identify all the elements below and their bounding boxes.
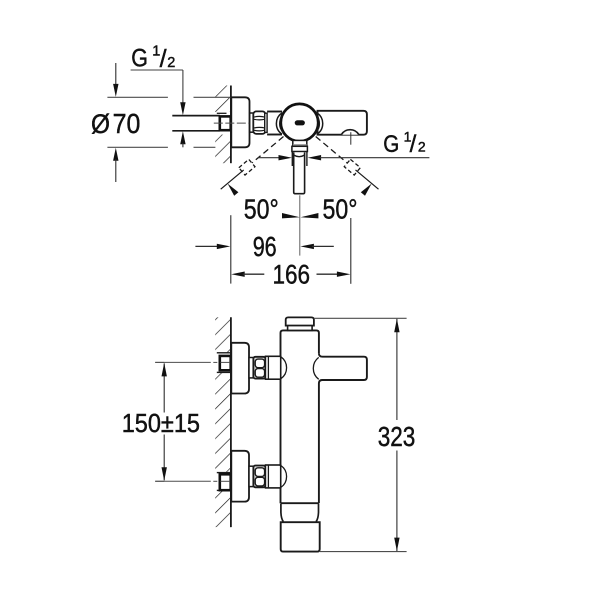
dimension 150±15	[122, 363, 200, 481]
body top cap	[286, 317, 314, 325]
neck grey band	[293, 144, 307, 146]
wall hole edges bottom inlet	[217, 473, 231, 491]
connection cylinder (top view)	[250, 113, 254, 132]
in-wall pipe fitting (top view, bold)	[220, 116, 231, 130]
svg-text:Ø: Ø	[91, 109, 110, 139]
dimension 96	[195, 231, 333, 262]
extension line at spout outlet (166)	[350, 218, 352, 284]
label Ø 70	[91, 108, 140, 139]
G 1/2 left leader	[131, 70, 183, 104]
connection cylinder bottom (side view)	[249, 466, 253, 486]
outlet neck below knob	[293, 140, 307, 146]
svg-text:2: 2	[167, 55, 175, 71]
connection cylinder top (side view)	[249, 358, 253, 378]
taper section	[281, 504, 319, 522]
TOP VIEW GROUP	[91, 43, 429, 289]
swung outlet end dashed rect left	[239, 159, 255, 175]
svg-text:G: G	[131, 45, 148, 73]
svg-text:323: 323	[378, 421, 416, 452]
in-wall fitting bottom (bold)	[220, 474, 231, 490]
SIDE VIEW GROUP	[122, 317, 416, 551]
left shoulder arcs	[276, 113, 283, 134]
wall (side view) hatched band	[214, 317, 231, 527]
dimension 166	[231, 260, 350, 290]
control knob circle (top view)	[281, 104, 318, 141]
angle bowtie arrow left	[282, 213, 300, 218]
hex nut (top view)	[253, 111, 265, 133]
knob slot marker	[295, 120, 305, 125]
dimension Ø70 bottom extension line	[107, 146, 215, 148]
escutcheon flange top (side view)	[231, 343, 249, 394]
center extension line below shaft	[299, 195, 301, 255]
shower outlet shaft (top view)	[294, 152, 305, 193]
wall (top view) hatched band	[214, 86, 232, 164]
cap neck	[288, 326, 313, 331]
union boss top (side view)	[265, 356, 280, 379]
svg-text:50°: 50°	[323, 194, 358, 225]
angle arrowhead outer left	[228, 184, 239, 196]
angle bowtie arrow right	[301, 213, 319, 218]
leader line right with arrow (to G 1/2)	[308, 155, 430, 160]
main body (side view)	[281, 330, 319, 503]
label G 1/2 right	[383, 128, 426, 158]
dimension 150±15 extension lines	[155, 362, 164, 481]
svg-text:2: 2	[418, 138, 426, 154]
escutcheon flange bottom (side view)	[231, 451, 249, 502]
dimension 323 extension lines	[314, 318, 407, 551]
wall hole edge (top view)	[217, 112, 227, 114]
hex nut top (side view)	[253, 357, 265, 379]
outlet collar	[292, 146, 308, 151]
pipe centerline (top view)	[214, 122, 249, 124]
spout outlet tick mark	[350, 132, 352, 145]
svg-text:96: 96	[253, 231, 277, 262]
body step line	[281, 502, 319, 504]
escutcheon flange (top view)	[231, 97, 249, 147]
swing ray dashed right	[316, 137, 347, 163]
right shoulder arcs	[316, 113, 323, 134]
wall surface edge (top view)	[230, 86, 232, 164]
svg-text:/: /	[410, 131, 417, 158]
dimension 323	[378, 319, 416, 551]
label G 1/2 left	[131, 43, 175, 72]
ray solid extension left	[221, 170, 244, 189]
bottom supply centerline	[155, 480, 230, 482]
G 1/2 arrow to pipe top	[180, 102, 185, 115]
inlet bulge arc bottom	[281, 466, 287, 488]
G 1/2 arrow to pipe bottom	[180, 131, 185, 147]
Ø70 top arrow	[113, 63, 118, 97]
arm junction arc	[313, 357, 318, 379]
spout outlet arch (top view)	[341, 130, 359, 135]
svg-text:50°: 50°	[244, 194, 279, 225]
dimension Ø70 top extension line	[107, 96, 230, 98]
top supply centerline	[155, 361, 230, 363]
svg-text:70: 70	[113, 108, 141, 139]
union boss bottom (side view)	[265, 465, 280, 488]
hex nut bottom (side view)	[253, 466, 265, 488]
svg-text:/: /	[160, 45, 167, 73]
ray solid extension right	[356, 170, 379, 189]
shower outlet cap (side view)	[281, 522, 320, 551]
svg-text:G: G	[383, 131, 399, 158]
spout arm (side view)	[319, 353, 367, 383]
in-wall fitting top (bold)	[220, 356, 231, 370]
body/spout right (top view)	[318, 111, 367, 135]
washer ring (top view)	[265, 113, 267, 132]
inner horizontal line left with arrow	[258, 155, 292, 160]
body tube left (top view)	[267, 112, 282, 135]
centerline through fittings	[221, 362, 231, 481]
wall surface edge (side view)	[230, 317, 232, 527]
supply pipe (top view)	[172, 116, 220, 131]
Ø70 bottom arrow	[113, 148, 118, 182]
swung outlet end dashed rect right	[344, 159, 360, 175]
swing ray dashed left	[252, 137, 283, 163]
angle arrowhead outer right	[361, 184, 372, 196]
wall hole edges top inlet	[217, 353, 231, 373]
svg-text:150±15: 150±15	[122, 410, 200, 438]
extension line at wall plane (96/166)	[230, 215, 232, 283]
outlet sleeve lines	[292, 152, 307, 166]
inlet bulge arc top	[281, 357, 287, 379]
svg-text:166: 166	[273, 260, 311, 290]
